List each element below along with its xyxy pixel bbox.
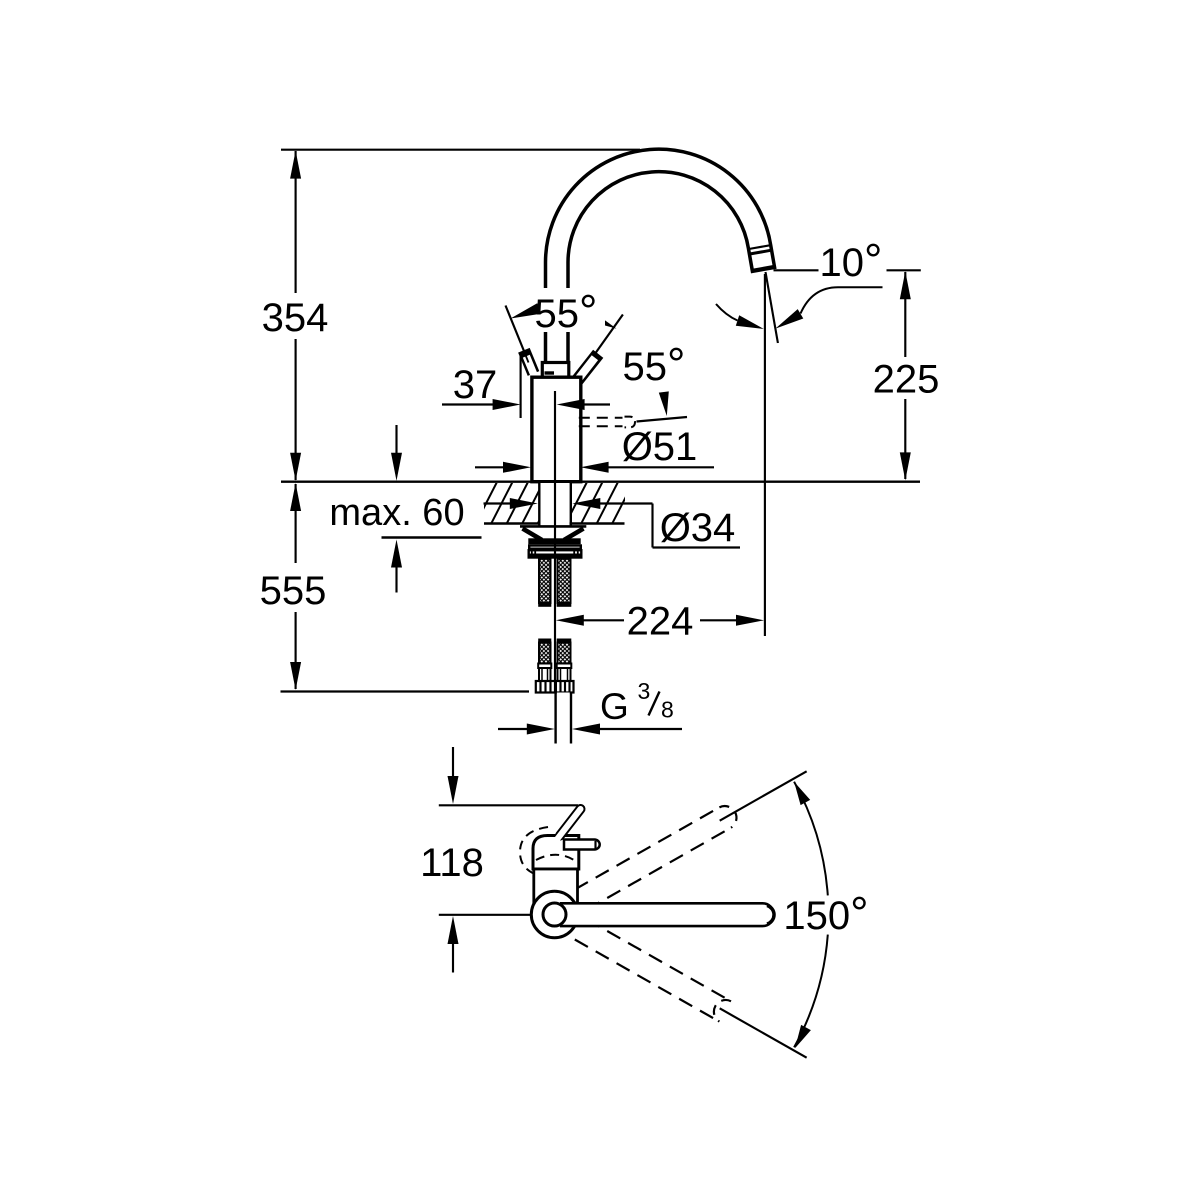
dim 150deg arc	[794, 782, 828, 896]
top view body column	[534, 869, 578, 903]
dim 118 top arrow	[452, 747, 454, 777]
spout tip angled stream line	[766, 272, 778, 343]
dim 55deg upper	[511, 303, 541, 318]
dim diameter 51	[475, 466, 505, 468]
svg-text:55°: 55°	[535, 285, 598, 337]
G3/8 tube	[557, 693, 570, 744]
svg-text:max. 60: max. 60	[329, 492, 464, 534]
hose left upper	[539, 559, 551, 603]
dim 55deg lower	[659, 391, 669, 416]
lever axis line right	[578, 315, 623, 378]
dim 555 bottom extension line	[281, 690, 530, 692]
svg-text:55°: 55°	[623, 338, 686, 390]
dim 354 top extension line	[281, 149, 640, 151]
seal band	[528, 538, 580, 544]
dim max 60	[395, 425, 397, 453]
svg-text:354: 354	[262, 296, 329, 340]
svg-text:118: 118	[420, 841, 484, 885]
svg-text:10°: 10°	[820, 234, 883, 286]
lever handle right	[574, 354, 598, 385]
dim 118 bottom arrow	[448, 916, 459, 944]
top view lever	[560, 809, 581, 836]
washer row	[529, 546, 581, 549]
10deg arc left	[716, 304, 738, 321]
swivel angle line upper	[720, 771, 807, 820]
center line	[554, 391, 556, 692]
flange plate	[520, 525, 586, 528]
spout tip vertical reference line	[764, 274, 766, 636]
counter hatch right	[566, 482, 649, 523]
top view cartridge dome	[533, 836, 579, 870]
svg-text:Ø34: Ø34	[660, 506, 736, 550]
svg-text:225: 225	[873, 358, 940, 402]
dashed swivel spout lower	[586, 919, 731, 1001]
svg-text:8: 8	[661, 696, 674, 722]
dim 37 extension line	[520, 356, 522, 418]
dim 555	[295, 484, 297, 563]
swivel angle line lower	[720, 1008, 807, 1057]
dim 118 top extension line	[439, 804, 578, 806]
counter underside line	[484, 522, 625, 524]
handle axis extension	[637, 417, 688, 422]
hose right upper	[558, 559, 571, 603]
dim G3/8	[498, 728, 528, 730]
nut bottom band	[528, 556, 583, 559]
svg-text:37: 37	[453, 363, 498, 407]
svg-text:Ø51: Ø51	[622, 425, 698, 469]
hose right lower	[558, 643, 571, 664]
svg-text:150°: 150°	[783, 887, 868, 939]
fitting nut left	[536, 681, 555, 693]
svg-text:555: 555	[260, 569, 327, 613]
faucet body	[532, 377, 581, 482]
top view base circle	[531, 891, 577, 937]
mounting shank	[541, 483, 570, 527]
svg-text:G: G	[600, 686, 629, 727]
gooseneck spout	[557, 160, 764, 364]
hub cap inner line	[594, 841, 596, 849]
dim 224	[556, 615, 584, 626]
mounting nut	[529, 550, 582, 555]
dashed swivel spout upper	[575, 807, 720, 889]
hose left lower	[539, 643, 551, 664]
countertop deck line	[281, 481, 920, 483]
flange cone sides	[523, 529, 543, 541]
dim 354	[295, 151, 297, 293]
lever handle left	[524, 350, 534, 373]
dashed side handle	[579, 417, 623, 419]
dim 118 bottom extension line	[439, 914, 531, 916]
lever axis line left visible part	[524, 350, 529, 363]
dashed lever swing arc	[520, 827, 548, 878]
10deg leader and arc right	[801, 287, 883, 313]
top view spout bar	[560, 903, 774, 926]
top view inner circle	[543, 903, 566, 926]
top view lever hub	[564, 840, 600, 850]
dim 37	[442, 403, 494, 405]
fitting nut right	[556, 681, 574, 693]
lever axis line left	[506, 306, 533, 373]
dim 10deg	[774, 269, 819, 271]
spout connector	[542, 363, 569, 378]
dim 225	[904, 272, 906, 357]
spout bar tip inner arc	[767, 906, 774, 925]
dashed inner arc	[536, 855, 574, 860]
spout tip band	[749, 245, 771, 249]
counter hatch left	[476, 482, 559, 523]
svg-text:224: 224	[627, 600, 694, 644]
dim diameter 34	[484, 502, 511, 504]
svg-text:3: 3	[638, 678, 651, 704]
